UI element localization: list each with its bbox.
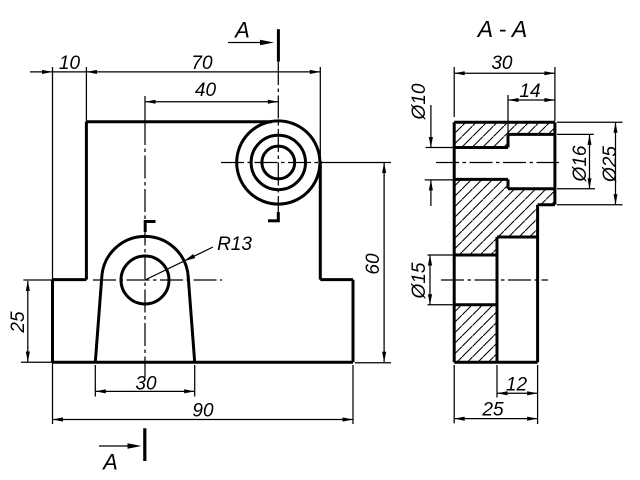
svg-text:30: 30 [491,53,513,74]
svg-text:70: 70 [191,53,213,74]
svg-text:Ø16: Ø16 [570,145,591,182]
svg-text:R13: R13 [217,234,252,255]
svg-text:12: 12 [506,374,528,395]
svg-text:40: 40 [195,80,217,101]
svg-text:30: 30 [135,373,157,394]
svg-text:25: 25 [481,399,504,420]
svg-text:A - A: A - A [476,16,527,42]
svg-text:10: 10 [59,53,81,74]
svg-text:A: A [233,17,250,42]
svg-text:60: 60 [363,253,384,275]
svg-text:90: 90 [192,400,214,421]
svg-text:Ø25: Ø25 [600,146,621,183]
svg-text:Ø10: Ø10 [409,83,430,120]
svg-text:A: A [101,449,118,474]
svg-text:14: 14 [519,81,540,102]
svg-text:25: 25 [8,311,29,334]
svg-text:Ø15: Ø15 [409,262,430,299]
